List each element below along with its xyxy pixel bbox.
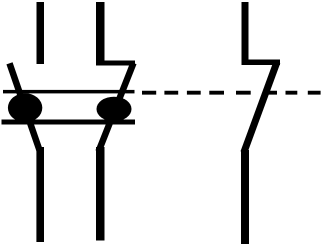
bridge bar: top rail	[3, 90, 135, 94]
bridge bar: bottom rail	[2, 120, 136, 125]
contact blade + lower wire of left pole, contact 2	[96, 63, 134, 241]
wire: top terminal of right pole (with elbow to fixed contact)	[242, 2, 281, 65]
contact dot: left bridging contact	[8, 93, 42, 122]
wire: top terminal of left pole, contact 2 (with elbow to fixed contact)	[96, 2, 135, 66]
contact blade + lower wire of left pole, contact 1	[10, 63, 45, 242]
contact blade + lower wire of right pole	[241, 62, 277, 244]
wire: top terminal of left pole, contact 1	[37, 2, 45, 64]
mechanical link: dashed actuator line	[142, 91, 321, 95]
contact dot: right bridging contact	[97, 97, 132, 122]
